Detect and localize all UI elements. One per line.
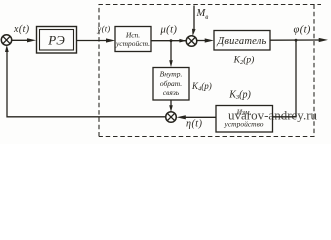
summing junction 2 (mu + Mv) xyxy=(186,36,197,47)
wire: x summing junction to RE block xyxy=(12,39,31,41)
svg-text:uvarov-andrey.ru: uvarov-andrey.ru xyxy=(228,108,318,123)
svg-text:Внутр.: Внутр. xyxy=(160,70,183,79)
block Isp. ustroystvo (actuator) xyxy=(115,27,151,52)
block RE (relay element, double border) xyxy=(37,27,77,54)
wire: feedback from phi down and into measuring block xyxy=(273,40,297,117)
svg-text:К3(р): К3(р) xyxy=(228,90,251,102)
wire: main feedback, eta junction left then up to x junction xyxy=(7,49,166,117)
block Vnutr. obrat. svyaz (inner feedback) xyxy=(153,68,189,101)
svg-text:φ(t): φ(t) xyxy=(294,25,311,36)
svg-text:x(t): x(t) xyxy=(13,24,30,35)
svg-text:связь: связь xyxy=(163,88,180,97)
svg-text:обрат.: обрат. xyxy=(160,79,182,88)
svg-text:Двигатель: Двигатель xyxy=(217,36,267,47)
wire: motor output phi(t), crosses dashed line, output arrow xyxy=(270,39,321,41)
wire: inner feedback block down into eta junction xyxy=(170,100,172,108)
svg-text:К2(р): К2(р) xyxy=(233,55,255,67)
svg-text:РЭ: РЭ xyxy=(47,33,65,48)
paper background xyxy=(0,0,331,144)
svg-text:устройст.: устройст. xyxy=(115,39,150,48)
block Izm. ustroystvo (measuring device) xyxy=(216,106,273,133)
wire: branch down into inner feedback block xyxy=(170,41,172,62)
dashed boundary box (object under control) xyxy=(99,5,321,137)
wire: Isp block to summing junction 2, with branch node xyxy=(151,40,186,42)
disturbance input M_v arrow from top xyxy=(192,6,195,31)
summing junction 1 (x) xyxy=(1,35,11,45)
wire: measuring block to eta summing junction (arrow left) xyxy=(182,116,216,118)
summing junction 3 (eta) xyxy=(166,112,177,123)
svg-text:y(t): y(t) xyxy=(97,24,111,34)
block Dvigatel (motor) xyxy=(214,31,270,51)
node: phi branch to measuring device xyxy=(295,39,298,42)
node: branch to inner feedback xyxy=(170,39,173,42)
wire: summing junction 2 to motor block xyxy=(197,40,209,42)
svg-text:К4(р): К4(р) xyxy=(191,81,212,93)
svg-text:μ(t): μ(t) xyxy=(160,25,178,36)
wire: RE block to Isp block (crosses dashed line) xyxy=(77,40,109,42)
svg-text:η(t): η(t) xyxy=(186,119,203,130)
